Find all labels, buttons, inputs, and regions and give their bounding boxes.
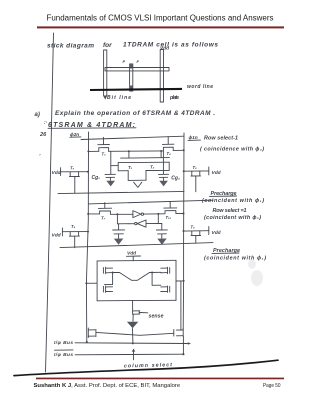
heading 6TSRAM & 4TDRAM underlined	[48, 122, 136, 129]
page edge shadow curve	[14, 360, 278, 375]
wire sense common down	[132, 328, 134, 343]
node dots row2	[87, 213, 184, 216]
svg-text:(coincident with ϕ₂): (coincident with ϕ₂)	[204, 215, 261, 221]
transistor T7	[98, 203, 111, 221]
wire feedback right vertical	[157, 214, 159, 224]
Vdd terminal right row2	[209, 227, 222, 236]
label I/O-bar Bus	[54, 350, 73, 358]
ground (sense)	[127, 322, 138, 329]
bus line 2	[75, 353, 183, 356]
rail phi2n (top)	[81, 136, 184, 139]
header rule	[37, 26, 284, 28]
wire inverter1 out to T10	[144, 213, 165, 215]
node dots buses	[86, 341, 185, 355]
wire drop right into latch	[160, 151, 162, 158]
wire bitlineL to T3	[88, 150, 98, 152]
wire drop left into latch	[128, 151, 130, 158]
svg-text:sense: sense	[149, 314, 164, 320]
svg-text:Vdd: Vdd	[212, 230, 222, 236]
wire T3 to T4 (storage nodes)	[109, 150, 164, 152]
svg-text:(coincident with ϕ₁): (coincident with ϕ₁)	[204, 255, 266, 261]
Vdd terminal left row2	[52, 228, 63, 239]
inverter 2 (left-pointing)	[135, 220, 146, 227]
node dots row1	[87, 149, 184, 152]
node bitlineL/T8	[87, 231, 89, 233]
wire lower-left to inverter2 output	[117, 223, 134, 225]
note Row select =1 (row2)	[204, 208, 261, 221]
wire bitlineL to T7	[88, 213, 99, 215]
transistor Q-LL	[103, 286, 112, 293]
rail precharge row1	[58, 191, 184, 193]
svg-text:Row select-1: Row select-1	[204, 136, 238, 142]
wire box to bitlineR	[176, 280, 184, 282]
capacitor C4	[156, 224, 167, 239]
svg-text:T₁₀: T₁₀	[166, 215, 172, 220]
inverter 1 (right-pointing)	[133, 211, 144, 218]
svg-text:Sushanth K J, Asst. Prof. Dep: Sushanth K J, Asst. Prof. Dept. of ECE, …	[34, 383, 181, 389]
stick diagram: word line (thick)	[90, 89, 182, 90]
node bitlineR/T11	[183, 230, 185, 232]
transistor Q-sense	[133, 311, 148, 322]
wire T7 to inverter input	[110, 213, 132, 215]
svg-text:plate: plate	[169, 95, 179, 101]
stick diagram: diffusion horizontal bar	[105, 68, 169, 71]
svg-text:Vdd: Vdd	[52, 170, 62, 176]
svg-text:T₄: T₄	[167, 151, 172, 156]
ground (Cg2)	[159, 181, 168, 187]
transistor T4	[162, 137, 174, 156]
capacitor Cg1	[105, 151, 115, 180]
rail precharge row2	[60, 243, 213, 248]
svg-text:Bit line: Bit line	[107, 95, 131, 101]
svg-text:P: P	[123, 59, 126, 64]
bit line left (vertical)	[86, 132, 88, 342]
transistor Q-UL	[103, 267, 112, 274]
svg-text:T₇: T₇	[101, 216, 106, 221]
svg-text:T₂: T₂	[150, 165, 155, 170]
svg-text:a): a)	[35, 112, 40, 118]
wire inverter2 input to right vertical	[146, 223, 162, 225]
wire feedback left vertical	[116, 214, 118, 224]
svg-text:Vdd: Vdd	[160, 46, 170, 52]
latch top bar	[121, 157, 170, 160]
svg-text:I/φ Bus: I/φ Bus	[54, 340, 73, 346]
svg-text:1TDRAM cell is as follows: 1TDRAM cell is as follows	[123, 42, 218, 49]
wire cross-couple valley	[113, 272, 161, 280]
Vdd terminal right row1	[209, 167, 222, 176]
svg-text:Row select =1: Row select =1	[213, 208, 247, 214]
ground (latch)	[128, 180, 146, 187]
svg-text:( coincidence with ϕ₂): ( coincidence with ϕ₂)	[200, 147, 264, 153]
transistor T1	[118, 162, 169, 171]
column select pointer arrow	[132, 349, 136, 360]
stick diagram: poly contact marks	[123, 59, 140, 64]
svg-text:T₁: T₁	[128, 165, 133, 170]
node bitlineL/T5	[87, 171, 89, 173]
svg-text:stick diagram: stick diagram	[47, 43, 94, 50]
transistor T5	[61, 166, 88, 193]
wire bitlineL to box	[86, 282, 97, 284]
transistor T8	[63, 224, 88, 248]
svg-text:F: F	[137, 59, 140, 64]
label phi2n	[70, 132, 81, 138]
svg-text:T₈: T₈	[71, 224, 76, 229]
svg-text:(coincident with ϕ₁): (coincident with ϕ₁)	[202, 198, 264, 204]
wire Vdd stem	[132, 256, 134, 260]
transistor T10	[164, 202, 177, 221]
wire left gate drop	[105, 273, 113, 285]
note Precharge (row1)	[202, 191, 264, 204]
svg-text:Vdd: Vdd	[52, 233, 62, 239]
stick diagram: poly gate bar	[130, 64, 133, 91]
svg-text:Vdd: Vdd	[212, 170, 222, 176]
svg-text:T₆: T₆	[193, 165, 198, 170]
wire box bottom stem	[132, 301, 134, 311]
stick diagram: Vdd plate bar	[160, 50, 163, 103]
capacitor Cg2	[158, 151, 168, 181]
transistor T6	[184, 165, 209, 192]
smudge marks	[248, 259, 263, 286]
latch pedestal	[128, 171, 146, 181]
svg-text:Page 50: Page 50	[263, 383, 281, 389]
sense amp box	[97, 260, 176, 301]
transistor T11	[184, 225, 209, 244]
ground (Cg1)	[106, 181, 115, 187]
wire T4 to bitlineR	[173, 149, 184, 151]
transistor Q-colR	[174, 329, 183, 337]
transistor Q-colL	[88, 328, 96, 338]
svg-text:26: 26	[39, 132, 47, 138]
label phi1n	[188, 135, 201, 141]
svg-text:word line: word line	[187, 84, 213, 90]
wire T10 to bitlineR	[176, 213, 184, 215]
ground (C3)	[114, 239, 123, 245]
Vdd terminal left row1	[52, 168, 62, 176]
node bitlineR/T6	[183, 170, 185, 172]
wire right gate drop	[152, 273, 161, 286]
bus line 1	[75, 342, 191, 344]
svg-text:for: for	[103, 42, 112, 49]
svg-text:I/φ Bus: I/φ Bus	[54, 352, 73, 358]
svg-text:Cɡ₁: Cɡ₁	[92, 175, 101, 181]
stick diagram: metal bit line bar	[103, 50, 107, 100]
note Precharge (row2)	[204, 248, 266, 261]
rail column select	[96, 332, 174, 335]
transistor Q-UR	[161, 267, 170, 274]
transistor Q-LR	[161, 286, 170, 293]
wire latch left to Cg1	[111, 165, 118, 167]
svg-text:’: ’	[39, 154, 41, 160]
wire right branch down	[180, 281, 182, 330]
svg-text:Vdd: Vdd	[127, 251, 137, 257]
svg-text:T₉: T₉	[191, 225, 196, 230]
label Vdd (sense amp)	[127, 251, 141, 257]
transistor T2	[146, 162, 169, 170]
svg-text:Fundamentals of CMOS VLSI Impo: Fundamentals of CMOS VLSI Important Ques…	[47, 14, 274, 23]
rail row-select row2	[88, 200, 213, 204]
svg-text:T₃: T₃	[102, 152, 107, 157]
footer rule	[36, 378, 284, 380]
svg-text:Cɡ₂: Cɡ₂	[171, 176, 180, 182]
margin line	[46, 33, 54, 372]
svg-text:T₅: T₅	[70, 166, 75, 171]
transistor T3	[98, 137, 110, 156]
svg-text:Explain the operation of 6TSRA: Explain the operation of 6TSRAM & 4TDRAM…	[55, 110, 215, 117]
ground (C4)	[157, 239, 166, 245]
node dots sense amp	[112, 272, 154, 274]
capacitor C3	[113, 224, 125, 239]
bit line right (vertical)	[182, 133, 185, 329]
wire colR output down	[182, 336, 184, 354]
